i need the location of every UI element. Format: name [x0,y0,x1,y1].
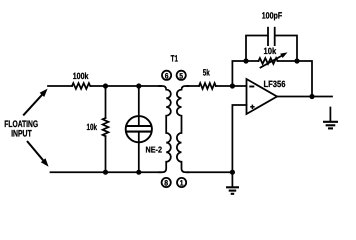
svg-text:INPUT: INPUT [11,127,32,138]
svg-text:10k: 10k [264,46,278,56]
node top junction 10k [103,83,108,88]
node top junction NE-2 [136,83,141,88]
transformer T1 primary winding [159,86,171,172]
svg-text:5k: 5k [203,67,211,77]
svg-text:6: 6 [165,71,169,80]
pin 8 [162,178,171,188]
resistor 100k [72,83,90,89]
transformer T1 secondary winding [177,86,189,172]
pin 1 [177,178,186,188]
wire 10k upper lead [105,86,107,118]
wire pot left lead [246,60,259,62]
label FLOATING INPUT [4,118,38,138]
svg-text:10k: 10k [87,122,98,132]
wire top from 100k to transformer [91,85,162,87]
ground at output [323,108,338,129]
wire 5k to inverting input [216,85,247,87]
node bottom junction 10k [103,170,108,175]
wire pot right lead [278,60,298,62]
neon lamp NE-2 [126,86,152,172]
wire capacitor left branch [246,36,267,62]
wire feedback right drop [297,61,312,97]
resistor 10k [103,118,109,136]
node bottom junction NE-2 [136,170,141,175]
svg-text:1: 1 [180,179,184,188]
pin 5 [177,71,186,81]
svg-text:8: 8 [164,179,168,188]
capacitor 100pF [268,27,275,46]
pin 6 [162,71,171,81]
node output junction [309,94,314,99]
wire top input [48,85,72,87]
wire output [277,96,332,98]
arrow to top input wire [23,89,47,116]
wire capacitor right branch [276,36,297,62]
wire non-inverting input [232,105,246,172]
op-amp U1 LF356 [247,79,278,114]
ground below op-amp [226,172,239,194]
node inverting input junction [230,83,235,88]
wire bottom input [51,171,162,173]
node pot left terminal [243,58,248,63]
resistor 5k [199,83,216,89]
svg-text:LF356: LF356 [264,79,286,89]
wire 10k lower lead [105,136,107,172]
wire bottom secondary to ground [187,171,232,173]
potentiometer 10k [259,52,288,67]
node pot right terminal [294,58,299,63]
svg-text:100k: 100k [73,71,90,81]
arrow to bottom input wire [27,141,49,167]
svg-text:5: 5 [179,71,183,80]
node ground junction [230,170,235,175]
svg-text:NE-2: NE-2 [146,144,163,154]
svg-text:T1: T1 [171,53,178,63]
wire secondary top to 5k [187,85,199,87]
wire feedback left riser [232,61,246,86]
svg-text:100pF: 100pF [262,10,283,20]
